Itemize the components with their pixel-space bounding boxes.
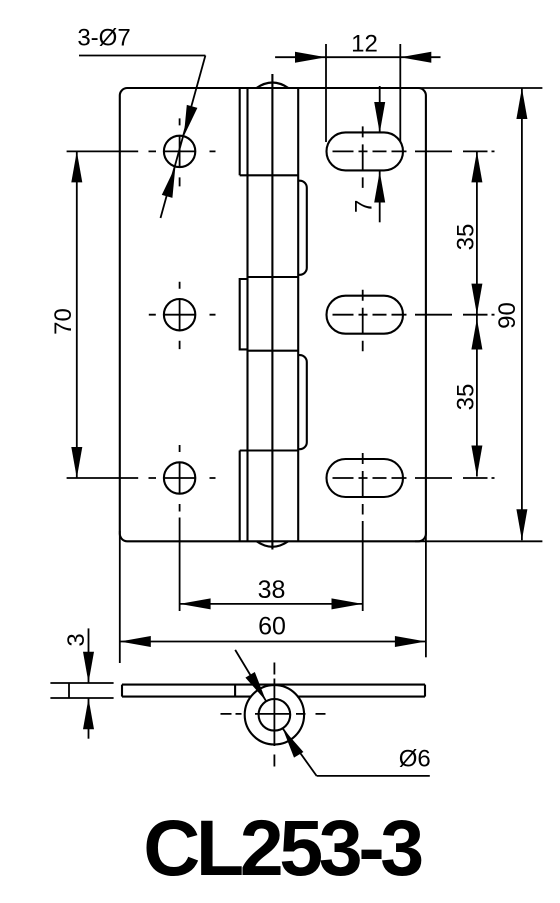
arrowhead dim60 left (120, 636, 151, 647)
svg-text:70: 70 (50, 308, 77, 335)
dimension 60 extension line left (119, 531, 121, 663)
hole H1 top-left (164, 136, 195, 167)
pin axis line (271, 74, 273, 550)
dimension 3 lower arrow line (88, 698, 90, 739)
arrowhead dim38 right (332, 598, 363, 609)
arrowhead dim3 top (83, 652, 94, 683)
left leaf edge strip segment 3 (239, 451, 241, 542)
dimension 12 line (275, 56, 440, 58)
arrowhead dim12 left (295, 52, 326, 63)
hole H2 centerline vertical (179, 282, 181, 349)
dimension 12 extension line left (325, 44, 327, 142)
arrowhead dim70 top (71, 151, 82, 182)
left leaf edge strip segment 1 (239, 88, 241, 175)
dimension 3 upper arrow line (88, 628, 90, 682)
pin end arc top (257, 83, 289, 89)
hole H3 bottom-left (164, 462, 195, 493)
slot S2 middle-right (327, 296, 404, 334)
slot S3 centerline horizontal extended to 35-dim (333, 477, 495, 479)
arrowhead dim90 bottom (516, 509, 527, 540)
svg-text:3: 3 (63, 633, 90, 646)
dimension 38 line (180, 603, 363, 605)
barrel left edge (246, 88, 248, 541)
slot S3 bottom-right (327, 459, 404, 497)
arrowhead dim60 right (395, 636, 426, 647)
dimension 90 line (521, 88, 523, 540)
side view left leaf end cap (234, 685, 236, 697)
side view knuckle centerline vertical (273, 663, 275, 767)
svg-text:90: 90 (494, 302, 521, 329)
arrowhead dim35a top (471, 151, 482, 182)
side view bar bottom edge left (122, 696, 251, 698)
knuckle division line 1 (240, 174, 299, 176)
leader 3-diam-7 underline (79, 55, 205, 57)
svg-text:7: 7 (351, 200, 378, 213)
arrowhead leader diam6 upper (245, 672, 266, 701)
side view bar right cap (424, 685, 426, 697)
svg-text:12: 12 (351, 31, 378, 58)
leader 3-diam-7 diagonal line (161, 56, 206, 219)
hole H2 centerline horizontal (149, 314, 216, 316)
dimension 70 line (76, 151, 78, 478)
dimension 90 extension top (plate top edge extended) (415, 87, 542, 89)
leader diam-6 lower diagonal (283, 728, 317, 776)
arrowhead dim3 bottom (83, 698, 94, 729)
arrowhead dim38 left (180, 598, 211, 609)
dimension 60 extension line right (425, 531, 427, 657)
side view bar left cap (121, 685, 123, 697)
side view knuckle centerline horizontal (221, 713, 326, 715)
side view knuckle outer circle (245, 685, 304, 744)
arrowhead dim35b bottom (471, 446, 482, 477)
dimension 60 line (120, 641, 426, 643)
dimension 7 lower arrow line (379, 172, 381, 223)
arrowhead dim7 lower (374, 172, 385, 203)
svg-text:35: 35 (452, 384, 479, 411)
hole H1 centerline vertical (179, 118, 181, 186)
knuckle tab upper (right leaf) (298, 181, 307, 275)
dimension 7 upper arrow line (379, 86, 381, 133)
arrowhead leader 3-diam-7 lower (162, 167, 176, 198)
pin end arc bottom (257, 541, 289, 547)
knuckle tab lower (right leaf) (298, 355, 307, 449)
svg-text:38: 38 (258, 576, 286, 604)
arrowhead dim35b top (471, 319, 482, 350)
svg-text:3-Ø7: 3-Ø7 (77, 25, 130, 52)
knuckle division line 4 (240, 449, 299, 451)
side view bar bottom edge right (297, 696, 425, 698)
dimension 3 extension connector (68, 683, 70, 698)
left leaf edge strip segment 2 (240, 279, 248, 349)
hinge plate outline (top view) (120, 88, 426, 541)
dimension 90 extension bottom (plate bottom edge extended) (415, 540, 542, 542)
arrowhead leader diam6 lower (283, 728, 304, 757)
svg-text:Ø6: Ø6 (399, 746, 431, 773)
dimension 35 line (both) (476, 151, 478, 476)
arrowhead dim12 right (400, 52, 431, 63)
slot S2 centerline horizontal extended to 35-dim (333, 314, 495, 316)
side view bar top edge (122, 684, 425, 686)
svg-text:35: 35 (452, 224, 479, 251)
dimension 3 extension line top (50, 682, 113, 684)
arrowhead dim7 upper (374, 102, 385, 133)
svg-text:CL253-3: CL253-3 (143, 803, 422, 892)
slot S1 top-right (327, 132, 404, 170)
arrowhead dim70 bottom (71, 447, 82, 478)
dimension 3 extension line bottom (50, 697, 113, 699)
hole H3 centerline horizontal with 70-dim extension (67, 477, 216, 479)
knuckle division line 2 (248, 276, 299, 278)
side view pin hole circle (259, 699, 291, 731)
arrowhead dim35a bottom (471, 284, 482, 315)
slot S2 centerline vertical (362, 290, 364, 352)
leader diam-6 horizontal tail (317, 775, 430, 777)
arrowhead dim90 top (516, 88, 527, 119)
slot S1 centerline horizontal extended to 35-dim (333, 150, 495, 152)
hole H1 centerline horizontal with 70-dim extension (67, 150, 216, 152)
slot S3 centerline vertical with 38-dim extension (362, 453, 364, 611)
hole H2 middle-left (164, 299, 195, 330)
barrel right edge (297, 88, 299, 541)
knuckle division line 3 (248, 350, 299, 352)
hole H3 centerline vertical with 38-dim extension (179, 445, 181, 611)
arrowhead leader 3-diam-7 upper (184, 105, 198, 136)
slot S1 centerline vertical (362, 126, 364, 187)
svg-text:60: 60 (258, 613, 286, 641)
dimension 12 extension line right (399, 44, 401, 142)
leader diam-6 upper diagonal (235, 650, 266, 701)
